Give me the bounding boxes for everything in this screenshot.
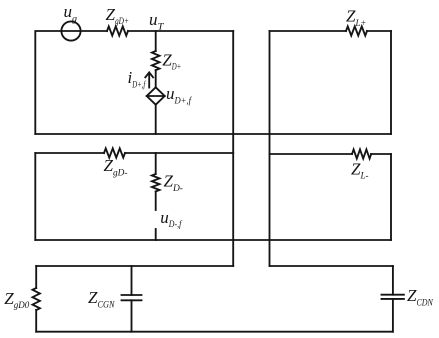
svg-text:ZgD0: ZgD0 (4, 289, 29, 311)
wire source gap to bottom edge (u_D-,f position) (155, 229, 157, 240)
svg-text:ZCDN: ZCDN (407, 286, 433, 308)
wire top-left box left edge and top-left segment (35, 31, 61, 134)
current arrow i_D+,f (145, 72, 153, 87)
wire resistor Z_L- to right edge (371, 153, 391, 155)
node u_T (155, 31, 157, 51)
svg-text:uD-,f: uD-,f (160, 208, 182, 230)
resistor Z_gD- (104, 148, 125, 157)
svg-text:ZL+: ZL+ (346, 7, 366, 29)
svg-text:uT: uT (149, 10, 164, 32)
label Z_CGN (88, 288, 115, 310)
svg-text:iD+,f: iD+,f (128, 68, 147, 90)
wire bottom box left edge lower lead (35, 310, 37, 332)
wire middle-right box right edge (390, 154, 392, 240)
label Z_D- (164, 172, 183, 194)
label Z_L- (351, 159, 368, 181)
label u_T (149, 10, 164, 32)
wire resistor Z_gD- to right edge (125, 152, 233, 154)
resistor Z_D+ (152, 51, 160, 70)
voltage source u_g (61, 21, 80, 40)
wire controlled source to bottom edge (155, 105, 157, 134)
label Z_gD+ (106, 5, 129, 27)
wire top-right box top-left segment (270, 30, 347, 32)
svg-text:ZgD-: ZgD- (104, 156, 128, 178)
wire Z_D+ to controlled source (155, 70, 157, 87)
svg-text:ZgD+: ZgD+ (106, 5, 129, 27)
wire bottom box top edge left segment (36, 265, 233, 267)
wire source to resistor Z_gD+ (81, 30, 107, 32)
wire middle-left box left edge (34, 153, 36, 240)
wire top-right box right edge (390, 31, 392, 134)
resistor Z_gD+ (107, 26, 128, 35)
label Z_CDN (407, 286, 433, 308)
resistor Z_L+ (346, 26, 367, 35)
svg-text:uD+,f: uD+,f (166, 84, 192, 106)
wire resistor Z_L+ to top-right corner (367, 30, 391, 32)
label Z_gD- (104, 156, 128, 178)
label Z_L+ (346, 7, 366, 29)
wire middle-right box top edge left segment (270, 153, 353, 155)
wire bottom box right edge upper lead (392, 266, 394, 295)
resistor Z_D- (152, 174, 160, 191)
wire right-edge vertical at x=232.5 from top box down to bottom section (232, 31, 234, 266)
label u_D+,f (166, 84, 192, 106)
svg-text:ZD-: ZD- (164, 172, 183, 194)
svg-text:ZCGN: ZCGN (88, 288, 115, 310)
wire common bottom edge of both middle boxes (y=240) (35, 239, 391, 241)
capacitor Z_CDN plates (382, 295, 404, 299)
controlled source u_D+,f (diamond) (147, 87, 165, 104)
svg-text:ZD+: ZD+ (162, 50, 181, 72)
wire middle-left box top edge left segment (35, 152, 104, 154)
wire Z_D- to source gap (155, 192, 157, 211)
wire junction to resistor Z_D- (155, 153, 157, 174)
capacitor Z_CGN lower lead (131, 300, 133, 331)
wire bottom box left edge upper lead (35, 266, 37, 288)
capacitor Z_CGN plates (122, 295, 142, 300)
label Z_D+ (162, 50, 181, 72)
capacitor Z_CGN branch upper lead (131, 266, 133, 295)
wire common bottom edge of both top boxes (y=134) (35, 133, 391, 135)
wire left-edge vertical at x=269 from top box down to bottom section (269, 31, 271, 266)
svg-text:ZL-: ZL- (351, 159, 368, 181)
wire bottom box right edge lower lead (392, 299, 394, 332)
resistor Z_gD0 (33, 288, 40, 310)
label u_g (64, 2, 78, 24)
svg-text:ug: ug (64, 2, 78, 24)
label Z_gD0 (4, 289, 29, 311)
resistor Z_L- (352, 149, 371, 158)
label u_D-,f (160, 208, 182, 230)
wire bottom box bottom edge (36, 331, 393, 333)
wire bottom box top edge right segment (270, 265, 393, 267)
label i_D+,f (128, 68, 147, 90)
wire resistor Z_gD+ to node u_T and on to top-right corner (128, 30, 233, 32)
